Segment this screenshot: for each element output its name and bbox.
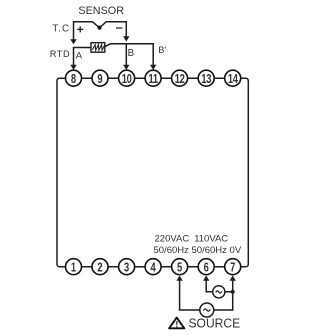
svg-text:220VAC: 220VAC — [155, 233, 190, 244]
svg-text:11: 11 — [149, 73, 158, 87]
svg-text:RTD: RTD — [50, 49, 71, 59]
svg-text:50/60Hz 50/60Hz 0V: 50/60Hz 50/60Hz 0V — [154, 245, 242, 256]
svg-text:110VAC: 110VAC — [194, 233, 228, 244]
svg-text:5: 5 — [177, 261, 182, 275]
svg-text:8: 8 — [71, 73, 76, 87]
svg-text:12: 12 — [175, 73, 185, 87]
svg-text:10: 10 — [122, 73, 132, 87]
svg-text:2: 2 — [97, 261, 102, 275]
svg-text:14: 14 — [228, 73, 239, 87]
svg-text:3: 3 — [124, 261, 129, 275]
svg-text:6: 6 — [204, 261, 209, 275]
svg-text:T.C: T.C — [52, 24, 70, 35]
svg-text:7: 7 — [230, 261, 235, 275]
svg-text:13: 13 — [201, 73, 211, 87]
svg-text:B: B — [128, 48, 135, 59]
svg-text:9: 9 — [97, 73, 102, 87]
svg-text:SOURCE: SOURCE — [189, 316, 241, 330]
svg-text:A: A — [76, 50, 83, 61]
svg-text:B': B' — [158, 45, 166, 55]
svg-text:!: ! — [175, 320, 178, 331]
svg-text:4: 4 — [150, 261, 156, 275]
svg-text:1: 1 — [71, 261, 76, 275]
svg-text:SENSOR: SENSOR — [78, 5, 124, 17]
